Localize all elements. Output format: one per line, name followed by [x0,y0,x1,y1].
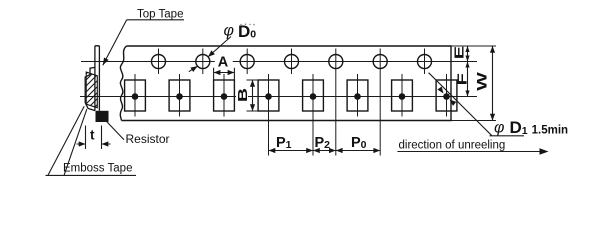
svg-text:A: A [218,55,229,71]
svg-text:B: B [236,88,250,102]
svg-text:φ: φ [494,120,504,137]
svg-text:E: E [452,46,466,59]
svg-text:t: t [90,128,95,143]
svg-text:Emboss Tape: Emboss Tape [63,163,132,175]
svg-text:W: W [474,72,489,91]
svg-text:Top Tape: Top Tape [137,9,183,21]
svg-text:F: F [455,73,469,85]
svg-text:φ: φ [224,23,234,40]
svg-text:Resistor: Resistor [126,132,170,146]
svg-text:direction of unreeling: direction of unreeling [399,140,506,152]
